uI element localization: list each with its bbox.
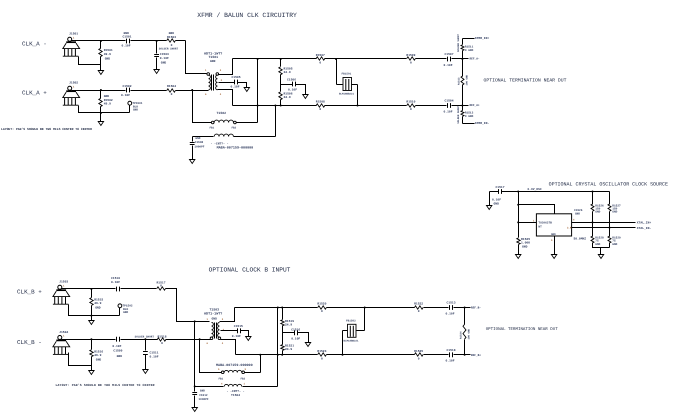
node divider B top: [281, 307, 283, 309]
node CLK_A+ / choke tap: [191, 89, 193, 91]
svg-text:C1501: C1501: [123, 36, 132, 39]
svg-text:OPTIONAL CRYSTAL OSCILLATOR CL: OPTIONAL CRYSTAL OSCILLATOR CLOCK SOURCE: [549, 181, 668, 187]
wire R1510 to C1504: [416, 105, 447, 107]
svg-text:0.10F: 0.10F: [232, 335, 241, 338]
node rail x278 top: [277, 307, 279, 309]
wire T1503 pin3 to top rail B: [220, 308, 235, 322]
label Y1501: [574, 209, 583, 216]
svg-text:BLM18BB221: BLM18BB221: [339, 93, 355, 96]
wire balun upper right to riser: [245, 372, 261, 374]
svg-text:GND: GND: [123, 311, 128, 314]
resistor R1513: [457, 105, 473, 124]
svg-text:R1509: R1509: [406, 54, 415, 57]
capacitor C1516: [283, 328, 309, 342]
svg-text:OPTIONAL TERMINATION NEAR DUT: OPTIONAL TERMINATION NEAR DUT: [486, 327, 559, 332]
svg-text:FB1: FB1: [210, 126, 215, 129]
svg-text:GND: GND: [96, 358, 102, 361]
resistor R1527 (150): [608, 204, 621, 214]
svg-text:R1522: R1522: [414, 303, 423, 306]
wire R1503 to T1501 pin1: [186, 41, 207, 74]
wire stub XFMR_IN+: [463, 38, 475, 40]
node balun riser B: [259, 354, 261, 356]
node rail x258 bottom: [257, 105, 259, 107]
wire stub XFMR_IN-: [463, 123, 475, 125]
svg-text:ADT1-1WT?: ADT1-1WT?: [204, 312, 222, 317]
wire to ground B-: [91, 366, 93, 371]
node CLK_B- / balun tap: [199, 338, 201, 340]
svg-text:C1513: C1513: [447, 302, 456, 305]
svg-text:MABA-007159-000000: MABA-007159-000000: [216, 363, 253, 368]
resistor R1525 (1.00K): [517, 238, 530, 255]
ground: [516, 255, 521, 259]
node rail x278 bottom: [277, 354, 279, 356]
node CLK_B- junction: [144, 338, 146, 340]
wire R1511 to R1512: [462, 51, 464, 77]
svg-text:24.9: 24.9: [284, 71, 291, 74]
svg-text:GND: GND: [522, 246, 528, 249]
svg-text:XFMR / BALUN CLK CIRCUITRY: XFMR / BALUN CLK CIRCUITRY: [197, 12, 297, 19]
svg-text:FB2: FB2: [232, 126, 237, 129]
resistor R1510: [406, 101, 415, 111]
resistor R1508: [316, 101, 325, 111]
capacitor C1509: [112, 337, 122, 358]
wire R1517 to T1503 pin1: [166, 289, 210, 322]
ground: [551, 255, 556, 259]
svg-text:GND: GND: [104, 95, 110, 98]
wire cap tap to balun lower left: [195, 322, 224, 387]
ground: [154, 70, 159, 74]
svg-text:SOLDER SHORT: SOLDER SHORT: [457, 105, 460, 124]
svg-text:R1521: R1521: [285, 345, 294, 348]
capacitor C1501: [122, 32, 132, 48]
node divider bottom: [280, 105, 282, 107]
balun center tap marker -CNT-: [211, 142, 229, 145]
node bead B bottom tap: [342, 354, 344, 356]
svg-text:1000PF: 1000PF: [199, 398, 209, 401]
capacitor C1507: [444, 53, 454, 67]
wire bottom rail A right: [325, 105, 407, 107]
wire C1517 to ground: [489, 192, 491, 206]
svg-text:CLK_B -: CLK_B -: [17, 339, 42, 346]
svg-text:R1503: R1503: [167, 36, 176, 39]
wire term rail top: [462, 39, 464, 45]
resistor R1501: [99, 41, 113, 71]
svg-text:0.10F: 0.10F: [122, 45, 131, 48]
connector J1502: [63, 82, 80, 106]
resistor R1502: [99, 91, 113, 113]
svg-text:0.10F: 0.10F: [121, 94, 130, 97]
ground: [192, 408, 197, 412]
svg-text:C1516: C1516: [291, 328, 300, 331]
ground: [487, 206, 492, 210]
capacitor C1508: [190, 137, 205, 160]
wire chain bottoms join: [593, 243, 610, 248]
node return gnd B+: [90, 315, 92, 317]
svg-text:49.9: 49.9: [94, 354, 101, 357]
capacitor C1510: [111, 277, 120, 291]
ground: [98, 122, 103, 126]
node chain1 / XTAL_IN+: [592, 221, 594, 223]
svg-text:R1512: R1512: [457, 77, 460, 85]
svg-text:C1504: C1504: [445, 100, 454, 103]
node R1516 top: [90, 338, 92, 340]
transformer T1501 ADT1-1WT: [204, 51, 223, 96]
wire osc left vertical: [518, 192, 520, 238]
wire R1504 to T1501 pin2: [176, 90, 209, 92]
wire 3.3V rail: [519, 191, 610, 193]
wire rail x278 vertical: [277, 308, 279, 387]
wire C1501 to junction: [131, 40, 157, 42]
capacitor C1505 (center tap): [219, 76, 247, 89]
svg-text:100 GND: 100 GND: [465, 74, 468, 85]
svg-text:OPTIONAL CLOCK B INPUT: OPTIONAL CLOCK B INPUT: [209, 266, 291, 273]
wire C1502 to R1504: [131, 90, 167, 92]
ground: [89, 371, 94, 375]
wire bottom rail B right: [327, 354, 415, 356]
svg-text:GND: GND: [95, 307, 101, 310]
capacitor C1512: [192, 387, 209, 408]
wire T1501 pin3 to top rail: [219, 59, 233, 75]
svg-text:50.0MHZ: 50.0MHZ: [574, 238, 587, 241]
wire CLK_A+ from J1502 to C1502: [72, 90, 126, 92]
ground: [303, 95, 308, 99]
resistor R1516: [90, 340, 104, 366]
net label REF_B-: [465, 306, 482, 309]
resistor R1522: [414, 303, 423, 313]
svg-text:J1503: J1503: [59, 281, 68, 284]
ferrite bead FB1501 (boxed): [337, 59, 358, 106]
svg-text:GND: GND: [612, 243, 617, 246]
svg-text:0: 0: [171, 44, 173, 47]
svg-text:C1502: C1502: [123, 85, 132, 88]
wire C1507 to REF_A-: [452, 58, 463, 60]
svg-text:C1515: C1515: [234, 325, 243, 328]
balun center tap marker -CNT- (B): [227, 390, 245, 397]
wire T1503 pin4 to bottom rail B: [221, 340, 236, 355]
svg-text:GND: GND: [551, 233, 556, 236]
svg-text:C1518: C1518: [447, 349, 456, 352]
node shell return / gnd: [100, 112, 102, 114]
svg-text:R1507: R1507: [316, 54, 325, 57]
svg-text:49.9: 49.9: [104, 53, 111, 56]
capacitor C1515 (center tap): [221, 325, 249, 338]
svg-text:0: 0: [410, 108, 412, 111]
svg-text:R1502: R1502: [104, 99, 113, 102]
svg-text:R1511: R1511: [465, 46, 474, 49]
wire CLK_B- from J1504: [62, 339, 116, 341]
node bead top tap: [335, 58, 337, 60]
capacitor C1517: [490, 186, 519, 205]
svg-text:C1507: C1507: [445, 53, 454, 56]
svg-text:24.9: 24.9: [285, 323, 292, 326]
wire to ground B+: [91, 316, 93, 321]
resistor R1518: [135, 336, 167, 345]
svg-text:0: 0: [418, 310, 420, 313]
wire chain2 bottom: [609, 243, 611, 248]
svg-text:3.3V_OSC: 3.3V_OSC: [527, 188, 542, 191]
wire C1510 to R1517: [121, 288, 157, 290]
svg-text:0: 0: [161, 342, 163, 345]
svg-text:0: 0: [160, 284, 162, 287]
capacitor C1506: [281, 79, 306, 95]
resistor R1504: [167, 85, 176, 96]
ground: [98, 71, 103, 75]
wire chain2 middle: [609, 212, 611, 237]
svg-text:GND: GND: [105, 58, 111, 61]
wire J1501 shell return: [79, 57, 101, 65]
svg-text:T1503: T1503: [210, 307, 220, 311]
svg-text:R1523: R1523: [317, 350, 326, 353]
node R1501 top: [100, 40, 102, 42]
net label REF_B+: [465, 354, 482, 357]
connector J1501: [63, 33, 80, 57]
svg-text:- -CNT?- -: - -CNT?- -: [227, 390, 245, 393]
resistor R1521: [281, 333, 294, 355]
wire balun lower right: [234, 136, 276, 138]
svg-text:GND: GND: [161, 61, 167, 64]
ground: [89, 321, 94, 325]
resistor R1524 (100 ohm termination): [460, 308, 471, 355]
svg-text:GND: GND: [200, 389, 205, 392]
svg-text:0.10F: 0.10F: [231, 86, 240, 89]
svg-text:LAYOUT: PAD'S SHOULD BE TWO MI: LAYOUT: PAD'S SHOULD BE TWO MILS CENTER …: [56, 383, 155, 387]
node bead bottom tap: [357, 105, 359, 107]
resistor R1507: [316, 54, 325, 64]
svg-text:R1510: R1510: [406, 101, 415, 104]
svg-text:GND: GND: [494, 202, 500, 205]
wire chain1 middle: [592, 212, 594, 237]
resistor R1520: [317, 303, 326, 313]
balun lower winding (MABA): [214, 134, 233, 136]
svg-text:1000PF: 1000PF: [194, 145, 204, 148]
svg-text:2_R: 2_R: [567, 227, 572, 230]
svg-text:24.9: 24.9: [284, 96, 291, 99]
svg-text:1.00K: 1.00K: [521, 242, 530, 245]
wire top rail B right: [327, 307, 415, 309]
node 3.3V_OSC: [517, 191, 519, 193]
capacitor C1513: [446, 302, 456, 316]
resistor R1517: [157, 281, 166, 290]
svg-text:0: 0: [321, 310, 323, 313]
svg-text:0.10F: 0.10F: [291, 337, 300, 340]
svg-text:R1505: R1505: [284, 68, 293, 71]
svg-text:R1501: R1501: [104, 49, 113, 52]
svg-text:0.10F: 0.10F: [288, 89, 297, 92]
ground: [598, 255, 603, 259]
svg-text:0.10F: 0.10F: [112, 345, 121, 348]
svg-text:FB2: FB2: [241, 377, 246, 380]
svg-text:R1520: R1520: [317, 303, 326, 306]
svg-text:R1525: R1525: [414, 350, 423, 353]
svg-text:0.10F: 0.10F: [492, 199, 501, 202]
node branch to xtal pin1: [517, 221, 519, 223]
wire XTAL_IN- out: [572, 227, 636, 229]
node R1515 top: [90, 288, 92, 290]
svg-text:GND: GND: [595, 211, 600, 214]
svg-text:0.10F: 0.10F: [446, 360, 455, 363]
capacitor C1503: [154, 41, 169, 70]
wire CLK_A- from J1501 to C1501: [72, 40, 126, 42]
svg-text:0 GND: 0 GND: [465, 115, 474, 118]
svg-text:XFMR_IN-: XFMR_IN-: [475, 122, 490, 125]
svg-text:GND: GND: [117, 355, 123, 358]
wire CLK_A+ tap to T1502 left: [193, 91, 212, 123]
svg-text:REF_A+: REF_A+: [470, 104, 480, 107]
capacitor C1504: [444, 100, 454, 114]
resistor R1515: [90, 289, 104, 316]
svg-text:T1501: T1501: [209, 55, 219, 59]
svg-text:LAYOUT: PAD'S SHOULD BE TWO MI: LAYOUT: PAD'S SHOULD BE TWO MILS CENTER …: [1, 127, 92, 131]
svg-text:0: 0: [171, 93, 173, 96]
svg-text:0.10F: 0.10F: [160, 57, 169, 60]
wire junction to R1518: [146, 339, 158, 341]
svg-text:NT: NT: [538, 225, 542, 228]
svg-text:49.9: 49.9: [104, 102, 111, 105]
wire balun lower right: [243, 386, 278, 388]
svg-text:GND: GND: [212, 317, 218, 320]
svg-text:C1511: C1511: [150, 351, 159, 354]
svg-text:FB1501: FB1501: [342, 73, 352, 76]
svg-text:0.10F: 0.10F: [446, 312, 455, 315]
svg-text:C1506: C1506: [287, 79, 296, 82]
svg-text:GND: GND: [210, 60, 216, 63]
svg-text:0: 0: [321, 357, 323, 360]
capacitor C1502: [121, 85, 132, 97]
svg-text:J1502: J1502: [69, 82, 78, 85]
svg-text:GND: GND: [612, 211, 617, 214]
wire TP1502 stem: [119, 308, 121, 316]
net label REF_A-: [463, 57, 480, 60]
svg-text:GND: GND: [595, 243, 600, 246]
balun T1504 lower winding: [221, 382, 246, 386]
svg-text:J1501: J1501: [69, 33, 78, 36]
svg-text:R1525: R1525: [521, 238, 530, 241]
wire oscillator gnd pin: [554, 237, 556, 255]
wire top rail A right: [325, 58, 407, 60]
svg-text:R1504: R1504: [167, 85, 176, 88]
wire T1502 right to rail: [237, 122, 258, 124]
svg-text:100 GND: 100 GND: [468, 328, 471, 339]
svg-text:T1504: T1504: [231, 394, 240, 397]
svg-text:TXC0637B: TXC0637B: [538, 222, 552, 225]
wire term rail bottom: [462, 117, 464, 124]
svg-text:R1516: R1516: [94, 351, 103, 354]
wire J1502 shell return: [79, 106, 130, 113]
ground: [246, 337, 251, 341]
common mode choke T1502: [210, 111, 237, 129]
wire C1509 to junction: [121, 339, 146, 341]
svg-text:49.9: 49.9: [94, 302, 101, 305]
resistor R1511: [457, 33, 473, 52]
connector J1504: [53, 331, 70, 355]
resistor R1525b: [414, 350, 423, 360]
node chain1 top: [592, 191, 594, 193]
node C1512 top: [194, 385, 196, 387]
svg-text:C1517: C1517: [496, 186, 505, 189]
svg-text:C1526: C1526: [574, 209, 583, 212]
svg-text:SOLDER SHORT: SOLDER SHORT: [135, 336, 155, 339]
net label REF_A+: [463, 104, 480, 107]
ferrite bead FB1502 (boxed): [343, 308, 365, 355]
wire top rail B left: [235, 307, 318, 309]
svg-text:FB1: FB1: [219, 377, 224, 380]
wire to oscillator pin 4: [519, 205, 555, 214]
resistor R1509: [406, 54, 415, 64]
node rail x258 top: [257, 58, 259, 60]
svg-text:GND: GND: [133, 109, 138, 112]
balun T1504 upper winding: [218, 368, 247, 380]
svg-text:SOLDER SHORT: SOLDER SHORT: [159, 48, 179, 51]
resistor R1523: [317, 350, 326, 360]
svg-text:GND: GND: [195, 137, 200, 140]
svg-text:SOLDER SHORT: SOLDER SHORT: [457, 33, 460, 52]
node REF_B-: [464, 307, 466, 309]
wire CLK_B- tap to balun upper left: [200, 340, 222, 373]
wire J1504 shell return: [69, 353, 92, 366]
node branch to xtal top: [517, 204, 519, 206]
svg-text:J1504: J1504: [59, 331, 68, 334]
svg-text:XFMR_IN+: XFMR_IN+: [475, 37, 490, 40]
wire balun riser x260: [260, 355, 262, 373]
svg-text:C1505: C1505: [232, 76, 241, 79]
capacitor C1518: [446, 349, 456, 363]
resistor R1506: [279, 85, 293, 106]
wire T1501 pin4 to bottom rail: [218, 90, 233, 106]
svg-text:GND: GND: [169, 32, 175, 35]
node CLK_B+ / cap tap: [194, 320, 196, 322]
svg-text:0.10F: 0.10F: [150, 355, 159, 358]
wire XTAL_IN+ out: [572, 222, 636, 224]
node chain2 / XTAL_IN-: [609, 227, 611, 229]
wire to C1518: [424, 354, 449, 356]
svg-text:0: 0: [319, 62, 321, 65]
svg-text:R1519: R1519: [285, 320, 294, 323]
svg-text:0: 0: [410, 62, 412, 65]
svg-text:GND: GND: [575, 213, 580, 216]
test point TP1502: [118, 304, 133, 314]
wire R1509 to C1507: [416, 58, 447, 60]
svg-text:C1508: C1508: [195, 141, 204, 144]
node REF_A-: [461, 58, 463, 60]
transformer T1503 ADT1-1WT: [204, 307, 225, 345]
wire to oscillator pin 1: [519, 222, 537, 224]
wire chain1 top: [592, 192, 594, 205]
wire J1503 shell return: [69, 305, 120, 316]
svg-text:MABA-007159-000000: MABA-007159-000000: [217, 146, 254, 151]
svg-text:XTAL_IN+: XTAL_IN+: [637, 222, 652, 225]
svg-text:R1515: R1515: [94, 298, 103, 301]
ground: [190, 160, 195, 164]
wire chains to ground: [600, 248, 602, 255]
svg-text:FB1502: FB1502: [346, 319, 356, 322]
svg-text:0.10F: 0.10F: [444, 110, 453, 113]
svg-text:C1510: C1510: [111, 277, 120, 280]
wire bottom rail A left: [233, 105, 317, 107]
svg-text:R1513: R1513: [465, 111, 474, 114]
svg-text:- -CNT?- -: - -CNT?- -: [211, 142, 229, 145]
svg-text:0 GND: 0 GND: [465, 49, 474, 52]
svg-text:GND: GND: [124, 32, 130, 35]
svg-text:CLK_A +: CLK_A +: [22, 89, 47, 96]
wire R1522 to C1513: [424, 307, 449, 309]
resistor R1526 (150): [591, 204, 604, 214]
resistor R1529 (75): [608, 236, 621, 246]
svg-text:C1509: C1509: [113, 349, 122, 352]
wire R1512 to R1513: [462, 85, 464, 111]
svg-text:0: 0: [319, 108, 321, 111]
node CLK_A- junction: [156, 40, 158, 42]
svg-text:C1512: C1512: [199, 394, 208, 397]
